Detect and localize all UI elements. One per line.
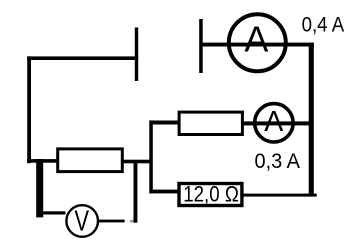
wire: lower branch lead to resistor R3 [151,190,178,194]
svg-text:V: V [75,206,90,238]
svg-text:0,4 A: 0,4 A [302,14,345,37]
svg-text:0,3 A: 0,3 A [255,150,301,173]
wire: R3 right lead to right rail [243,194,317,197]
battery cell: right plate [199,19,203,73]
svg-text:12,0 Ω: 12,0 Ω [183,182,239,207]
wire: middle rail vertical (parallel section left side) [149,120,153,193]
wire: R1 right lead to middle rail [121,160,153,164]
resistor R1 (left, unlabeled) [58,149,123,172]
battery cell: left plate [135,28,138,82]
wire: left rail vertical [27,56,31,163]
wire: battery right plate to right rail, passing through ammeter A1 [201,43,314,47]
wire: R2 right lead through ammeter A2 to right rail [243,121,309,125]
wire: gray stub at voltmeter right lead [130,220,135,223]
svg-text:A: A [264,106,283,138]
ammeter A1 circle (top branch) [229,14,286,71]
resistor R3 box (12,0 Ohm) [179,184,242,206]
wire: right rail vertical [309,43,314,197]
voltmeter V1 circle [66,205,98,237]
wire: junction from left rail to resistor R1 left lead [27,159,58,163]
wire: thick vertical to voltmeter left terminal [36,159,43,217]
wire: upper branch lead to resistor R2 [151,121,178,125]
wire: voltmeter right lead vertical up to R1 right lead [134,161,138,223]
wire: voltmeter V1 right terminal horizontal [99,220,125,223]
svg-text:A: A [244,19,268,60]
ammeter A2 circle (middle branch) [255,104,293,142]
resistor R2 (upper, unlabeled) [179,112,242,134]
wire: thick vertical to voltmeter V1 left terminal [41,211,66,214]
wire: top-left horizontal from left rail to battery negative plate [27,56,138,60]
